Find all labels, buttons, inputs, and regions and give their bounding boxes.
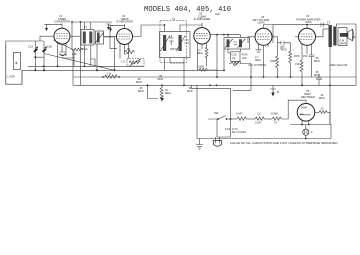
svg-text:SW: SW xyxy=(214,111,219,115)
tube V1 12BE6 converter xyxy=(40,14,81,49)
tube V2 12BA6 IF amplifier xyxy=(104,14,142,50)
svg-text:MFD: MFD xyxy=(187,89,193,93)
node dot junctions bus A xyxy=(34,69,36,71)
node dots buses xyxy=(290,76,292,78)
wire diagonal V1 xyxy=(54,40,75,50)
svg-text:33: 33 xyxy=(321,107,324,111)
output transformer T3 xyxy=(323,21,356,125)
svg-text:CONVERTER: CONVERTER xyxy=(54,20,70,24)
wire AC neutral vertical xyxy=(217,88,231,137)
svg-text:IF AMPLIFIER: IF AMPLIFIER xyxy=(116,20,133,24)
svg-text:L4: L4 xyxy=(274,121,277,125)
ground arrow at V2 xyxy=(108,25,125,31)
wire to fuse chain xyxy=(227,118,238,120)
variable capacitor C1B xyxy=(42,41,52,57)
svg-text:60 CYCLES: 60 CYCLES xyxy=(232,130,246,134)
svg-text:0.047: 0.047 xyxy=(255,121,262,125)
svg-text:SPKR: SPKR xyxy=(339,42,346,46)
resistor R17 33 xyxy=(315,107,330,125)
speaker SP1 xyxy=(338,28,356,46)
svg-text:MFD: MFD xyxy=(138,89,144,93)
volume potentiometer R24 xyxy=(231,61,267,67)
svg-text:22K: 22K xyxy=(242,56,247,60)
diode load box R22 xyxy=(228,49,241,61)
ground arrow B- xyxy=(270,85,280,96)
svg-text:68: 68 xyxy=(127,47,130,51)
svg-text:150K: 150K xyxy=(198,65,204,69)
svg-text:MFD: MFD xyxy=(158,77,164,81)
AC plug P1 xyxy=(213,127,246,146)
svg-text:A: A xyxy=(311,130,313,134)
svg-text:1 M: 1 M xyxy=(107,72,111,76)
svg-text:RECTIFIER: RECTIFIER xyxy=(301,95,315,99)
svg-text:MEG: MEG xyxy=(165,91,171,95)
wire left frame xyxy=(6,41,44,45)
tube V4 12AT6 1st audio xyxy=(248,15,273,50)
resistor R14 0.047 xyxy=(236,112,255,121)
svg-text:RED-YELLOW: RED-YELLOW xyxy=(330,63,348,67)
svg-text:MFD: MFD xyxy=(136,80,142,84)
wire V2 pins down xyxy=(120,47,129,59)
wire bus C xyxy=(191,77,251,90)
svg-text:220K: 220K xyxy=(270,59,276,63)
variable capacitor C1A xyxy=(28,41,38,57)
svg-text:T1: T1 xyxy=(84,25,88,29)
capacitor C16 label right xyxy=(319,93,325,100)
svg-text:T3: T3 xyxy=(327,21,331,25)
wire B+ top V4 to T3 xyxy=(273,24,329,26)
resistor R23 470K label xyxy=(242,53,248,60)
wire V4 plate to C12 xyxy=(272,37,291,56)
wire osc connections xyxy=(72,22,115,85)
svg-text:MFD: MFD xyxy=(281,48,287,52)
svg-text:1.5: 1.5 xyxy=(121,60,125,64)
wire V3 plate to T3 xyxy=(210,35,240,38)
resistor R8 under V3 xyxy=(197,46,208,67)
resistor R11 470K vertical xyxy=(289,43,300,77)
capacitor C15 .05MFD right xyxy=(314,70,322,85)
wire V1 bottom to bus xyxy=(58,48,67,66)
wire bus D ground xyxy=(73,84,356,86)
ground arrow osc xyxy=(106,24,111,30)
capacitor C8 .05 MFD xyxy=(138,85,158,98)
svg-text:2.2: 2.2 xyxy=(257,112,261,116)
tube V5 50C5 power amplifier xyxy=(295,14,323,50)
svg-text:C1B: C1B xyxy=(47,45,52,49)
svg-text:VALUE OF ALL CAPACITORS ARE 0.: VALUE OF ALL CAPACITORS ARE 0.047 UNLESS… xyxy=(230,141,338,145)
resistor R12 220K vertical xyxy=(270,56,279,77)
svg-text:0.05A: 0.05A xyxy=(271,112,278,116)
variable resistor box R5 (dashed) xyxy=(121,59,144,67)
resistor R13 under V5 xyxy=(295,60,303,85)
IF transformer T3 detector xyxy=(224,38,250,50)
svg-text:C1A: C1A xyxy=(28,45,33,49)
resistor R7 10 MEG vertical xyxy=(160,85,171,101)
svg-text:0.047: 0.047 xyxy=(236,112,243,116)
wire T2 bottom leads xyxy=(165,58,185,86)
svg-text:LOOP: LOOP xyxy=(8,75,15,79)
resistor R1 osc grid xyxy=(72,48,83,56)
oscillator trimmer coil L2 xyxy=(95,31,104,44)
wire bus B xyxy=(73,76,356,78)
svg-text:MEG: MEG xyxy=(197,51,203,55)
svg-text:150: 150 xyxy=(295,62,300,66)
svg-text:3.2: 3.2 xyxy=(352,35,356,39)
svg-text:C20: C20 xyxy=(215,12,220,16)
svg-text:B-: B- xyxy=(277,90,280,94)
resistor R6 1M xyxy=(105,72,118,79)
resistor R10 4.7 MEG xyxy=(255,50,264,77)
wire riser x73 xyxy=(72,50,74,85)
svg-text:470K: 470K xyxy=(294,54,300,58)
ground arrow at V1 grid xyxy=(44,24,62,31)
ground chassis left xyxy=(196,139,203,150)
capacitor C2 under V1 xyxy=(59,49,74,58)
svg-text:50C5: 50C5 xyxy=(305,20,312,24)
wire B- bus bottom xyxy=(197,125,331,139)
svg-text:6.3A: 6.3A xyxy=(225,127,231,131)
wire V3 plate riser xyxy=(216,35,218,77)
switch SW1 xyxy=(208,111,227,120)
wire R6 to bus xyxy=(102,76,104,78)
resistor R15 2.2 xyxy=(255,112,272,125)
svg-text:455 KC: 455 KC xyxy=(170,47,179,51)
pilot lamp I1 xyxy=(303,125,313,139)
wire T2 top leads xyxy=(141,25,202,32)
wire right edge B+ xyxy=(355,24,357,85)
svg-text:.01: .01 xyxy=(232,56,236,60)
wire gang bottoms xyxy=(35,57,44,70)
wire diagonal AVC xyxy=(44,54,115,71)
resistor R9 150K xyxy=(198,47,218,71)
capacitor C12 .02 MFD xyxy=(273,25,288,52)
svg-text:35W4: 35W4 xyxy=(301,107,308,109)
svg-text:OSC: OSC xyxy=(82,47,88,51)
oscillator coil T1 xyxy=(72,22,112,66)
svg-text:12AT6: 12AT6 xyxy=(257,21,265,25)
svg-text:MEG: MEG xyxy=(255,58,261,62)
capacitor C14 under V5 xyxy=(302,47,315,77)
svg-text:T2: T2 xyxy=(172,17,176,21)
svg-text:IF AMPLIFIER: IF AMPLIFIER xyxy=(194,17,211,21)
wire T3 bottom connections xyxy=(224,49,251,77)
loop antenna L1 xyxy=(6,45,22,84)
wire power left boundary xyxy=(196,85,198,138)
capacitor C6 .05 MFD xyxy=(136,77,142,84)
resistor R4 AVC xyxy=(125,47,135,54)
svg-text:MFD: MFD xyxy=(314,59,320,63)
capacitor C18 ticks xyxy=(321,23,324,27)
svg-text:MFD: MFD xyxy=(319,96,325,100)
capacitor C9 label xyxy=(187,86,193,93)
capacitor C7 label xyxy=(158,74,164,81)
svg-text:22K: 22K xyxy=(72,52,77,56)
wire V2 left column xyxy=(110,31,117,49)
tube V3 12AT6 detector xyxy=(194,12,211,50)
node dot osc xyxy=(71,21,73,23)
resistor R16 0.05A fuse xyxy=(271,100,306,124)
IF transformer T2 (2nd IF) xyxy=(160,17,191,63)
wire bus66 xyxy=(28,65,144,67)
wire loop to bus A xyxy=(22,69,224,71)
wire rect bottom row xyxy=(290,124,331,126)
svg-text:150: 150 xyxy=(303,54,308,58)
tube V6 35W4 rectifier xyxy=(297,89,315,124)
ground at V4 cathode xyxy=(256,48,262,53)
